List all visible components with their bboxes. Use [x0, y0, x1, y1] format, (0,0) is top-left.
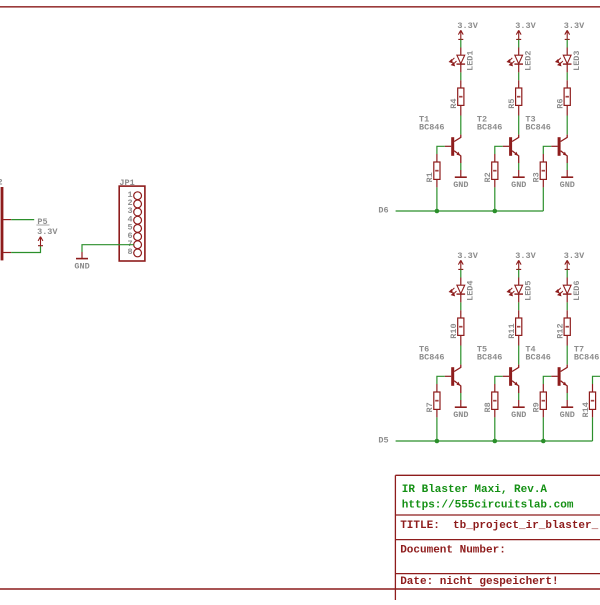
resistor R6 [564, 88, 570, 105]
transistor T3 BC846 [558, 137, 561, 156]
transistor T6 emitter pin [454, 381, 461, 393]
transistor T1 emitter pin [454, 151, 461, 163]
wire resistor R2 to net [494, 179, 496, 187]
connector JP1 body [119, 186, 145, 261]
resistor R8 value tick [493, 400, 496, 402]
wire base to resistor R9 [551, 375, 557, 377]
resistor R9 [540, 392, 546, 409]
supply +3V3 symbol [565, 30, 570, 39]
svg-text:GND: GND [560, 410, 575, 420]
transistor T3 collector pin [561, 135, 568, 142]
wire LED to resistor R10 [460, 294, 462, 302]
LED LED3 emission arrows [556, 58, 563, 66]
svg-text:BC846: BC846 [525, 352, 551, 362]
svg-text:JP1: JP1 [119, 178, 134, 188]
wire emitter to ground [518, 393, 520, 400]
svg-text:3.3V: 3.3V [515, 21, 536, 31]
svg-text:2: 2 [0, 178, 3, 188]
transistor T2 BC846 [509, 137, 512, 156]
LED LED5 emission arrows [507, 288, 514, 296]
LED LED4 [457, 285, 466, 294]
wire LED to resistor R4 [460, 64, 462, 72]
wire supply to LED [518, 39, 520, 47]
transistor T4 BC846 [558, 367, 561, 386]
svg-text:R6: R6 [556, 98, 566, 108]
resistor R7 value tick [435, 400, 438, 402]
resistor R3 [540, 162, 546, 179]
resistor R11 value tick [517, 326, 520, 328]
wire resistor R11 to collector [518, 335, 520, 345]
resistor R2 [492, 162, 498, 179]
svg-text:R11: R11 [507, 323, 517, 338]
wire net D5 [396, 440, 593, 442]
svg-text:3.3V: 3.3V [457, 251, 478, 261]
JP1 pin 5 pad [134, 225, 142, 233]
wire to 3.3V supply [11, 246, 40, 253]
svg-text:https://555circuitslab.com: https://555circuitslab.com [402, 500, 574, 512]
svg-text:P5: P5 [37, 217, 47, 227]
resistor R12 [564, 318, 570, 335]
IC U2 pin P5 [3, 219, 11, 221]
wire base to resistor R7 [445, 375, 451, 377]
frame top border [0, 6, 600, 8]
ground symbol [561, 176, 573, 178]
transistor T5 collector pin [512, 365, 519, 372]
transistor T5 emitter pin [512, 381, 519, 393]
svg-text:R14: R14 [581, 402, 591, 417]
ground symbol [513, 406, 525, 408]
supply +3V3 symbol [38, 237, 43, 246]
svg-text:GND: GND [511, 410, 526, 420]
supply +3V3 symbol [565, 260, 570, 269]
wire supply to LED [566, 39, 568, 47]
svg-text:TITLE: tb_project_ir_blaster_: TITLE: tb_project_ir_blaster_ [400, 520, 598, 532]
wire base to resistor R8 [503, 375, 509, 377]
frame bottom border [0, 588, 600, 590]
resistor R10 [458, 318, 464, 335]
wire resistor R10 to collector [460, 335, 462, 345]
junction dot [435, 209, 440, 214]
resistor R3 value tick [542, 170, 545, 172]
wire net D6 [396, 210, 544, 212]
svg-text:3.3V: 3.3V [564, 21, 585, 31]
svg-text:BC846: BC846 [419, 122, 445, 132]
resistor R1 [434, 162, 440, 179]
resistor R6 value tick [566, 96, 569, 98]
wire supply to LED [460, 269, 462, 277]
wire resistor R12 to collector [566, 335, 568, 345]
wire emitter to ground [460, 393, 462, 400]
svg-text:3.3V: 3.3V [515, 251, 536, 261]
svg-text:BC846: BC846 [419, 352, 445, 362]
ground symbol [76, 258, 88, 260]
wire base to resistor R1 [445, 145, 451, 147]
svg-text:BC846: BC846 [574, 352, 600, 362]
transistor T6 collector pin [454, 365, 461, 372]
supply +3V3 symbol [458, 260, 463, 269]
transistor T1 BC846 [451, 137, 454, 156]
wire LED to resistor R5 [518, 64, 520, 72]
svg-text:GND: GND [74, 261, 89, 271]
svg-text:3.3V: 3.3V [564, 251, 585, 261]
transistor T1 collector pin [454, 135, 461, 142]
ground symbol [455, 176, 467, 178]
IC U2 pin 3.3V [3, 252, 11, 254]
svg-text:Date: nicht gespeichert!: Date: nicht gespeichert! [400, 576, 558, 588]
svg-text:Document Number:: Document Number: [400, 545, 506, 557]
wire resistor R4 to collector [460, 105, 462, 115]
wire JP1 pin7 to ground [82, 245, 134, 252]
LED LED4 emission arrows [450, 288, 457, 296]
svg-text:3.3V: 3.3V [457, 21, 478, 31]
LED LED2 [514, 55, 523, 64]
transistor T2 emitter pin [512, 151, 519, 163]
LED LED1 [457, 55, 466, 64]
svg-text:3.3V: 3.3V [37, 227, 58, 237]
svg-text:R2: R2 [483, 172, 493, 182]
junction dot [493, 209, 498, 214]
svg-text:GND: GND [453, 180, 468, 190]
resistor R14 value tick [591, 400, 594, 402]
JP1 pin 4 pad [134, 216, 142, 224]
wire resistor R5 to collector [518, 105, 520, 115]
svg-text:R5: R5 [507, 98, 517, 108]
svg-text:LED5: LED5 [524, 280, 534, 300]
svg-text:R1: R1 [425, 172, 435, 182]
LED LED1 emission arrows [450, 58, 457, 66]
wire emitter to ground [566, 163, 568, 170]
wire resistor R8 to net [494, 409, 496, 417]
resistor R7 [434, 392, 440, 409]
ground symbol [455, 406, 467, 408]
wire resistor R7 to net [436, 409, 438, 417]
wire base to resistor R2 [503, 145, 509, 147]
transistor T6 BC846 [451, 367, 454, 386]
JP1 pin 1 pad [134, 192, 142, 200]
svg-text:IR Blaster Maxi, Rev.A: IR Blaster Maxi, Rev.A [402, 484, 548, 496]
svg-text:GND: GND [453, 410, 468, 420]
JP1 pin 7 pad [134, 241, 142, 249]
svg-text:BC846: BC846 [477, 122, 503, 132]
resistor R8 [492, 392, 498, 409]
resistor R2 value tick [493, 170, 496, 172]
ground symbol [513, 176, 525, 178]
wire supply to LED [518, 269, 520, 277]
transistor T2 collector pin [512, 135, 519, 142]
svg-text:BC846: BC846 [477, 352, 503, 362]
junction dot [435, 439, 440, 444]
LED LED3 [563, 55, 572, 64]
svg-text:R4: R4 [449, 98, 459, 108]
resistor R11 [516, 318, 522, 335]
svg-text:R3: R3 [532, 172, 542, 182]
svg-text:R8: R8 [483, 402, 493, 412]
svg-text:LED4: LED4 [466, 280, 476, 300]
svg-text:LED2: LED2 [524, 50, 534, 70]
wire supply to LED [460, 39, 462, 47]
resistor R5 [516, 88, 522, 105]
transistor T4 emitter pin [561, 381, 568, 393]
wire LED to resistor R12 [566, 294, 568, 302]
LED LED6 [563, 285, 572, 294]
resistor R10 value tick [459, 326, 462, 328]
svg-text:LED1: LED1 [466, 50, 476, 70]
supply +3V3 symbol [516, 30, 521, 39]
svg-text:GND: GND [511, 180, 526, 190]
resistor R9 value tick [542, 400, 545, 402]
wire emitter to ground [518, 163, 520, 170]
wire resistor R9 to net [542, 409, 544, 417]
LED LED5 [514, 285, 523, 294]
wire LED to resistor R6 [566, 64, 568, 72]
svg-text:R12: R12 [556, 323, 566, 338]
junction dot [493, 439, 498, 444]
resistor R4 [458, 88, 464, 105]
IC U2 body right edge (partial, clipped at left) [1, 187, 4, 260]
resistor R1 value tick [435, 170, 438, 172]
wire resistor R14 to net D5 [592, 409, 594, 417]
svg-text:D5: D5 [378, 435, 388, 445]
wire resistor R6 to collector [566, 105, 568, 115]
supply +3V3 symbol [516, 260, 521, 269]
supply +3V3 symbol [458, 30, 463, 39]
LED LED6 emission arrows [556, 288, 563, 296]
wire LED to resistor R11 [518, 294, 520, 302]
JP1 pin 6 pad [134, 233, 142, 241]
wire resistor R1 to net [436, 179, 438, 187]
svg-text:GND: GND [560, 180, 575, 190]
junction dot [541, 439, 546, 444]
resistor R14 [589, 392, 595, 409]
wire resistor R3 to net [542, 179, 544, 187]
title block frame [395, 475, 600, 600]
JP1 pin 8 pad [134, 249, 142, 257]
resistor R4 value tick [459, 96, 462, 98]
resistor R5 value tick [517, 96, 520, 98]
transistor T4 collector pin [561, 365, 568, 372]
wire supply to LED [566, 269, 568, 277]
svg-text:R10: R10 [449, 323, 459, 338]
LED LED2 emission arrows [507, 58, 514, 66]
wire base to resistor R3 [551, 145, 557, 147]
svg-text:8: 8 [127, 247, 132, 257]
resistor R12 value tick [566, 326, 569, 328]
ground symbol [561, 406, 573, 408]
svg-text:D6: D6 [378, 205, 388, 215]
wire T7 base to resistor R14 [593, 376, 600, 384]
svg-text:R9: R9 [532, 402, 542, 412]
svg-text:BC846: BC846 [525, 122, 551, 132]
wire emitter to ground [460, 163, 462, 170]
transistor T3 emitter pin [561, 151, 568, 163]
transistor T5 BC846 [509, 367, 512, 386]
svg-text:LED6: LED6 [572, 280, 582, 300]
svg-text:R7: R7 [425, 402, 435, 412]
JP1 pin 2 pad [134, 200, 142, 208]
svg-text:LED3: LED3 [572, 50, 582, 70]
JP1 pin 3 pad [134, 208, 142, 216]
wire emitter to ground [566, 393, 568, 400]
wire net P5 [11, 219, 34, 221]
